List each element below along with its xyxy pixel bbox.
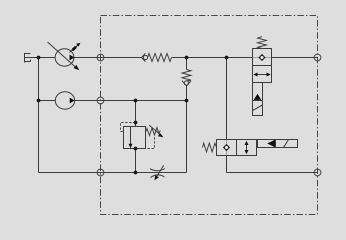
port circle right bottom	[314, 169, 321, 176]
valve V1 (2/2 cartridge, vertical)	[253, 37, 272, 116]
wire grey line through valve V1	[253, 57, 272, 59]
check valve CV2 (vertical)	[182, 70, 191, 87]
valve V2 (2/2 cartridge, horizontal)	[203, 140, 298, 156]
pump P1 variable	[48, 42, 81, 70]
port circle left top	[97, 54, 104, 61]
enclosure dash-dot boundary	[101, 16, 318, 215]
relief valve RV body	[124, 127, 146, 149]
solenoid right	[258, 140, 298, 148]
wire check valve riser x=186.5	[186, 58, 188, 173]
port circle right top	[314, 54, 321, 61]
pump P2 fixed	[55, 92, 74, 109]
wire valve riser x=226.5	[226, 58, 228, 173]
relief pilot dashed bottom	[136, 137, 155, 148]
check valve CV1 (on top line)	[142, 53, 172, 61]
port circle left bottom	[97, 169, 104, 176]
wire bottom-left line y=172.5	[39, 172, 187, 174]
relief valve spring (adjustable)	[146, 125, 164, 137]
wire left vertical x=38.5	[38, 58, 40, 173]
spring top	[258, 37, 267, 49]
solenoid actuator below	[253, 83, 263, 116]
diamond position 1	[258, 54, 265, 61]
throttle valve (adjustable restrictor)	[150, 165, 165, 180]
double arrow position 2	[257, 74, 268, 76]
spring left	[203, 143, 217, 152]
wire top line y=57.5	[25, 57, 318, 59]
wire grey line through valve V2	[226, 140, 228, 156]
wire second line y=100.5	[39, 100, 187, 102]
diamond position 1	[223, 144, 230, 151]
wire bottom-right line y=172.5	[227, 172, 318, 174]
port E symbol	[25, 53, 31, 63]
relief pilot dashed top	[121, 123, 136, 132]
wire relief riser x=135.5	[135, 101, 137, 173]
port circle left middle	[97, 97, 104, 104]
double arrow position 2	[246, 144, 248, 151]
